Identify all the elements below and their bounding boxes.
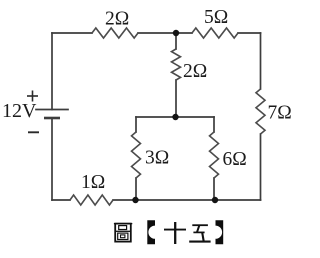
svg-text:5Ω: 5Ω [204,7,228,28]
svg-text:2Ω: 2Ω [183,61,207,82]
svg-text:7Ω: 7Ω [268,103,292,124]
svg-text:1Ω: 1Ω [81,172,105,193]
svg-text:6Ω: 6Ω [223,149,247,170]
svg-text:3Ω: 3Ω [145,148,169,169]
svg-text:2Ω: 2Ω [105,9,129,30]
svg-text:12V: 12V [2,100,37,122]
